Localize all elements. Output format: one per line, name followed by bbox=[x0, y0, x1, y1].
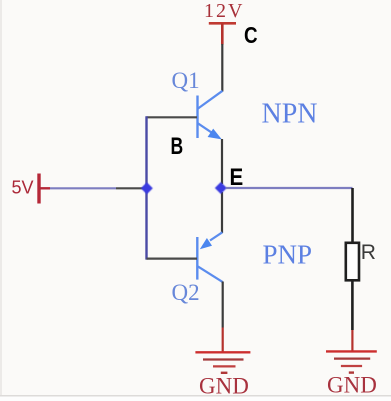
svg-text:5V: 5V bbox=[12, 178, 34, 198]
svg-text:GND: GND bbox=[199, 374, 249, 399]
svg-text:Q2: Q2 bbox=[172, 280, 200, 305]
svg-text:NPN: NPN bbox=[262, 99, 318, 130]
svg-text:B: B bbox=[171, 133, 184, 160]
svg-text:R: R bbox=[361, 241, 376, 264]
svg-text:Q1: Q1 bbox=[172, 68, 200, 93]
svg-text:12V: 12V bbox=[204, 0, 244, 22]
svg-text:GND: GND bbox=[327, 373, 377, 398]
svg-text:PNP: PNP bbox=[263, 240, 313, 270]
svg-text:C: C bbox=[244, 22, 258, 48]
